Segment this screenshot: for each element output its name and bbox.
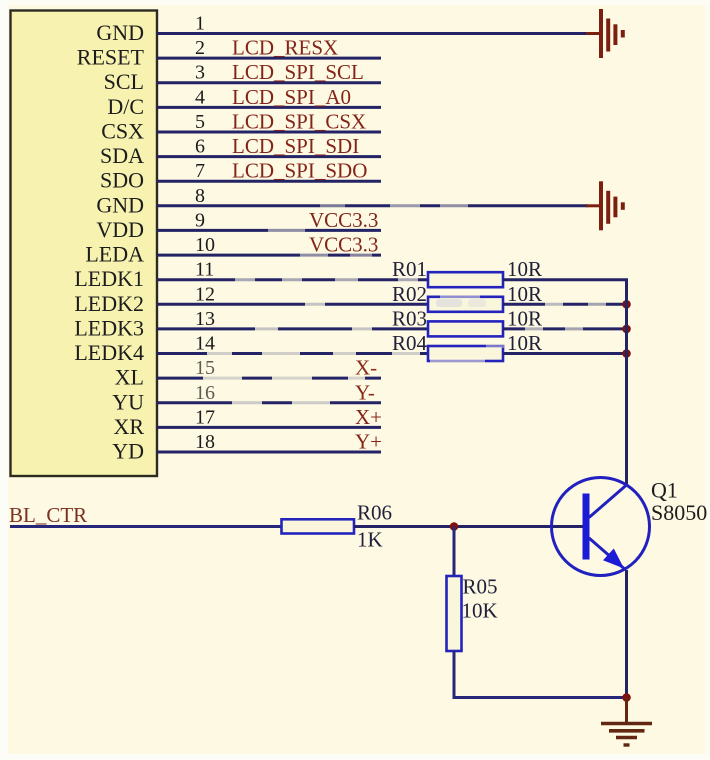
svg-text:6: 6 xyxy=(195,136,205,158)
collector bus wire down to Q1 xyxy=(625,280,628,485)
svg-text:10R: 10R xyxy=(507,257,542,281)
svg-text:1: 1 xyxy=(195,13,205,35)
junction dot base node xyxy=(450,522,459,531)
svg-text:VCC3.3: VCC3.3 xyxy=(309,233,378,257)
wire pin 5 xyxy=(157,131,381,134)
svg-text:15: 15 xyxy=(195,357,215,379)
svg-text:Q1: Q1 xyxy=(651,478,678,503)
svg-text:YD: YD xyxy=(112,439,144,464)
junction dot row 14 xyxy=(622,349,631,358)
resistor R02 xyxy=(428,295,503,312)
svg-text:SCL: SCL xyxy=(104,69,144,94)
wire pin 15 xyxy=(157,376,381,381)
svg-text:13: 13 xyxy=(195,308,215,330)
ground G1 (pin 1) xyxy=(586,9,623,58)
wire R06 to Q1 base xyxy=(354,525,583,528)
svg-text:R06: R06 xyxy=(357,501,392,525)
svg-text:LCD_RESX: LCD_RESX xyxy=(232,36,338,60)
svg-text:LEDK4: LEDK4 xyxy=(74,340,144,365)
svg-text:SDO: SDO xyxy=(100,168,144,193)
wire pin 2 xyxy=(157,57,381,60)
svg-text:X+: X+ xyxy=(355,405,382,429)
svg-text:RESET: RESET xyxy=(77,45,145,70)
svg-text:16: 16 xyxy=(195,382,215,404)
emitter wire down xyxy=(625,570,628,698)
svg-text:R05: R05 xyxy=(463,575,498,599)
wire BL_CTR to R06 xyxy=(10,525,282,528)
svg-text:XL: XL xyxy=(115,365,144,390)
wire pin 17 xyxy=(157,426,381,429)
wire pin 8 to ground xyxy=(157,203,588,208)
svg-text:LCD_SPI_A0: LCD_SPI_A0 xyxy=(232,85,351,109)
svg-text:10: 10 xyxy=(195,234,215,256)
wire pin 11 to resistor R01 xyxy=(157,277,428,282)
ground G3 (bottom) xyxy=(601,698,652,746)
ground G2 (pin 8) xyxy=(586,181,623,230)
wire pin 16 xyxy=(157,400,381,405)
svg-text:R03: R03 xyxy=(392,306,427,330)
svg-text:R01: R01 xyxy=(392,257,427,281)
svg-text:10K: 10K xyxy=(462,599,498,623)
svg-text:LCD_SPI_SCL: LCD_SPI_SCL xyxy=(232,60,364,84)
svg-text:VDD: VDD xyxy=(96,217,144,242)
svg-text:D/C: D/C xyxy=(107,94,144,119)
transistor Q1 emitter arrow xyxy=(603,549,624,569)
wire pin 7 xyxy=(157,180,381,183)
svg-text:S8050: S8050 xyxy=(651,500,707,525)
wire pin 13 to resistor R03 xyxy=(157,326,428,331)
transistor Q1 circle xyxy=(552,478,650,576)
junction dot row 13 xyxy=(622,325,631,334)
svg-text:4: 4 xyxy=(195,86,205,108)
svg-text:18: 18 xyxy=(195,431,215,453)
svg-text:LCD_SPI_SDO: LCD_SPI_SDO xyxy=(232,159,367,183)
svg-text:Y+: Y+ xyxy=(355,430,382,454)
svg-text:1K: 1K xyxy=(357,528,383,552)
wire pin 18 xyxy=(157,451,381,454)
svg-text:XR: XR xyxy=(113,414,144,439)
wire R04 to bus xyxy=(503,352,627,355)
svg-text:9: 9 xyxy=(195,209,205,231)
transistor Q1 emitter diagonal xyxy=(589,538,624,569)
svg-text:X-: X- xyxy=(355,356,377,380)
wire R05 to ground rail xyxy=(454,651,627,698)
svg-text:R04: R04 xyxy=(392,331,428,355)
resistor R01 xyxy=(428,272,503,287)
svg-text:LEDK2: LEDK2 xyxy=(74,291,144,316)
svg-text:14: 14 xyxy=(195,333,215,355)
wire pin 9 xyxy=(157,228,381,233)
svg-text:5: 5 xyxy=(195,111,205,133)
junction dot ground node xyxy=(622,693,631,702)
connector U1 box xyxy=(11,11,158,477)
wire pin 6 xyxy=(157,155,381,158)
svg-text:LEDK1: LEDK1 xyxy=(74,266,144,291)
svg-text:BL_CTR: BL_CTR xyxy=(9,503,87,527)
wire R02 to bus xyxy=(503,302,627,307)
svg-text:Y-: Y- xyxy=(355,380,375,404)
svg-text:LEDA: LEDA xyxy=(85,242,144,267)
wire pin 10 xyxy=(157,253,381,258)
svg-text:LCD_SPI_CSX: LCD_SPI_CSX xyxy=(232,110,366,134)
svg-text:12: 12 xyxy=(195,283,215,305)
svg-text:LCD_SPI_SDI: LCD_SPI_SDI xyxy=(232,134,359,158)
svg-text:17: 17 xyxy=(195,406,215,428)
junction dot row 12 xyxy=(622,300,631,309)
svg-text:GND: GND xyxy=(96,192,144,217)
svg-text:10R: 10R xyxy=(507,282,542,306)
svg-text:CSX: CSX xyxy=(101,119,144,144)
svg-text:2: 2 xyxy=(195,37,205,59)
transistor Q1 base bar xyxy=(583,494,590,560)
wire pin 3 xyxy=(157,81,381,84)
wire node to R05 xyxy=(453,527,456,577)
resistor R03 xyxy=(428,321,503,336)
transistor Q1 collector diagonal xyxy=(589,485,627,518)
wire pin 12 to resistor R02 xyxy=(157,302,428,307)
wire R01 to bus corner xyxy=(503,280,627,305)
resistor R04 xyxy=(428,344,504,363)
svg-text:YU: YU xyxy=(112,389,144,414)
svg-text:10R: 10R xyxy=(507,331,542,355)
svg-text:8: 8 xyxy=(195,185,205,207)
svg-text:SDA: SDA xyxy=(100,143,144,168)
svg-text:R02: R02 xyxy=(392,282,427,306)
wire pin 4 xyxy=(157,106,381,109)
wire R03 to bus xyxy=(503,326,627,331)
svg-text:VCC3.3: VCC3.3 xyxy=(309,208,378,232)
resistor R06 xyxy=(282,519,355,533)
wire pin 1 to ground xyxy=(157,32,588,35)
svg-text:7: 7 xyxy=(195,160,205,182)
svg-text:11: 11 xyxy=(195,259,214,281)
resistor R05 xyxy=(447,576,462,651)
svg-text:GND: GND xyxy=(96,20,144,45)
wire pin 14 to resistor R04 xyxy=(157,351,428,356)
svg-text:3: 3 xyxy=(195,62,205,84)
svg-text:LEDK3: LEDK3 xyxy=(74,315,144,340)
